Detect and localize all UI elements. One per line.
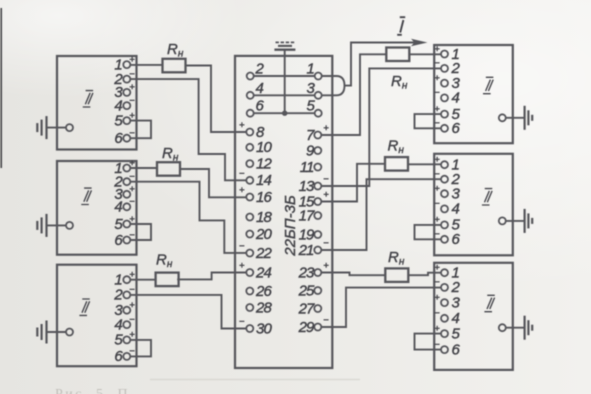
svg-text:+: + xyxy=(239,261,245,272)
pin 3 of right bottom box xyxy=(441,299,448,306)
svg-text:+: + xyxy=(323,190,329,201)
svg-text:5: 5 xyxy=(114,216,123,233)
svg-text:10: 10 xyxy=(256,139,272,156)
wire left-top box pin1 to resistor xyxy=(130,64,162,66)
ground (right middle box) xyxy=(506,220,525,222)
pin 26 of 22БП-3Б xyxy=(246,288,253,295)
wire left-bottom box pin1 to resistor xyxy=(130,279,155,281)
svg-text:6: 6 xyxy=(256,98,265,115)
pin 27 of 22БП-3Б xyxy=(314,305,321,312)
svg-text:23: 23 xyxy=(298,264,315,281)
label II (left middle box) xyxy=(81,188,91,204)
pin 10 of 22БП-3Б xyxy=(246,144,253,151)
wire resistor to right-middle box pin1 xyxy=(408,163,441,165)
svg-text:6: 6 xyxy=(452,120,461,137)
ground (right bottom box) xyxy=(506,327,525,329)
label II (left bottom box) xyxy=(79,299,89,315)
pin 6 of right top box xyxy=(441,125,448,132)
ground (left top box) xyxy=(47,127,67,129)
pin 12 of 22БП-3Б xyxy=(246,160,253,167)
svg-text:5: 5 xyxy=(114,332,123,349)
pin 22 of 22БП-3Б xyxy=(246,250,253,257)
svg-text:+: + xyxy=(434,73,440,84)
wire pin 4 to pin 3 (internal) xyxy=(254,94,315,96)
pin 21 of 22БП-3Б xyxy=(314,247,321,254)
ground terminal circle (right top box) xyxy=(499,114,506,121)
wire resistor to pin 16 (+) xyxy=(180,169,246,197)
jumper wire pins 5-6 (right bottom box) xyxy=(415,334,442,350)
power supply unit 22БП-3Б (outline) xyxy=(235,56,332,368)
svg-text:−: − xyxy=(434,58,440,69)
wire left-middle box pin1 to resistor xyxy=(130,167,157,169)
wire pin 13 (−) to right-top box pin2 xyxy=(321,68,441,186)
current direction arrow I xyxy=(411,39,428,47)
svg-text:+: + xyxy=(129,82,135,93)
svg-text:+: + xyxy=(323,261,329,272)
pin 19 of 22БП-3Б xyxy=(314,231,321,238)
pin 18 of 22БП-3Б xyxy=(246,214,253,221)
svg-text:22: 22 xyxy=(255,245,272,262)
svg-text:−: − xyxy=(434,169,440,180)
left load box II (middle) xyxy=(57,161,137,255)
wire resistor to pin 8 (+) xyxy=(186,66,247,133)
svg-text:17: 17 xyxy=(299,207,315,224)
ground (right top box) xyxy=(506,117,525,119)
ground terminal circle (left top box) xyxy=(66,124,73,131)
pin 14 of 22БП-3Б xyxy=(246,177,253,184)
svg-text:4: 4 xyxy=(256,80,264,97)
ground terminal circle (right middle box) xyxy=(499,217,506,224)
pin 1 of right middle box xyxy=(441,161,448,168)
pin 16 of 22БП-3Б xyxy=(246,194,253,201)
svg-text:+: + xyxy=(434,263,440,274)
scan edge line (left margin) xyxy=(0,8,2,168)
svg-text:+: + xyxy=(239,120,245,131)
pin 1 of right bottom box xyxy=(441,269,448,276)
pin 5 of right bottom box xyxy=(441,330,448,337)
jumper wire pins 5-6 (right top box) xyxy=(415,114,442,128)
right load box II (bottom) xyxy=(434,263,513,370)
svg-text:−: − xyxy=(129,314,135,325)
svg-text:+: + xyxy=(434,44,440,55)
svg-text:1: 1 xyxy=(307,61,315,78)
svg-text:−: − xyxy=(434,199,440,210)
svg-text:12: 12 xyxy=(256,155,272,172)
svg-text:−: − xyxy=(323,315,329,326)
pin 4 of right bottom box xyxy=(441,315,448,322)
pin 17 of 22БП-3Б xyxy=(314,212,321,219)
svg-text:6: 6 xyxy=(114,130,123,147)
pin 28 of 22БП-3Б xyxy=(246,304,253,311)
resistor Rн (left bottom) xyxy=(156,273,179,287)
svg-text:+: + xyxy=(323,123,329,134)
svg-text:13: 13 xyxy=(299,178,315,195)
pin 5 of right middle box xyxy=(441,221,448,228)
wire resistor to pin 24 (+) xyxy=(177,273,246,280)
pin 2 of right top box xyxy=(441,65,448,72)
pin 8 of 22БП-3Б xyxy=(246,129,253,136)
svg-text:6: 6 xyxy=(452,231,461,248)
svg-text:21: 21 xyxy=(298,242,314,259)
pin 2 of 22БП-3Б xyxy=(247,73,254,80)
pin 29 of 22БП-3Б xyxy=(314,324,321,331)
wire left-bottom box pin2 to pin 30 (−) xyxy=(130,295,246,329)
label II (left top box) xyxy=(83,91,93,107)
resistor Rн (right middle) xyxy=(385,157,408,171)
jumper wire pins 5-6 (left bottom box) xyxy=(130,340,151,357)
svg-text:−: − xyxy=(239,168,245,179)
svg-text:4: 4 xyxy=(452,90,460,107)
ground (left middle box) xyxy=(47,224,67,226)
pin 11 of 22БП-3Б xyxy=(314,164,321,171)
svg-text:4: 4 xyxy=(114,199,122,216)
svg-text:−: − xyxy=(239,241,245,252)
label II (right middle box) xyxy=(482,189,492,205)
jumper loop pins 1-3 of 22БП-3Б xyxy=(322,76,345,95)
svg-text:Rн: Rн xyxy=(156,252,173,271)
svg-text:Рис. 5. П: Рис. 5. П xyxy=(55,387,130,394)
svg-text:−: − xyxy=(434,308,440,319)
svg-text:26: 26 xyxy=(255,283,272,300)
pin 4 of right top box xyxy=(441,94,448,101)
pin 4 of 22БП-3Б xyxy=(247,92,254,99)
wire pin 2 to pin 1 (internal) xyxy=(254,75,315,77)
svg-text:Rн: Rн xyxy=(388,249,405,268)
svg-text:18: 18 xyxy=(256,209,272,226)
chassis ground (top of 22БП-3Б) xyxy=(274,49,295,51)
svg-text:24: 24 xyxy=(255,264,271,281)
svg-text:16: 16 xyxy=(256,189,272,206)
wire loop to current arrow xyxy=(345,43,415,86)
pin 23 of 22БП-3Б xyxy=(314,269,321,276)
pin 20 of 22БП-3Б xyxy=(246,231,253,238)
svg-text:6: 6 xyxy=(452,341,461,358)
svg-text:−: − xyxy=(323,174,329,185)
wire left-top box pin2 to pin 14 (−) xyxy=(130,79,246,180)
resistor Rн (left middle) xyxy=(157,162,180,176)
pin 4 of right middle box xyxy=(441,205,448,212)
label II (right bottom box) xyxy=(484,295,494,311)
svg-text:+: + xyxy=(129,54,135,65)
ground (left bottom box) xyxy=(47,331,67,333)
svg-text:−: − xyxy=(434,88,440,99)
left load box II (top) xyxy=(57,56,137,150)
svg-text:−: − xyxy=(239,317,245,328)
label I with overline xyxy=(397,17,405,35)
label II (right top box) xyxy=(483,77,493,93)
svg-text:+: + xyxy=(129,300,135,311)
wire pin 15 (+) to resistor (right middle) xyxy=(321,164,385,202)
svg-text:+: + xyxy=(239,185,245,196)
junction dot at pin 6-5 row xyxy=(282,111,287,116)
svg-text:−: − xyxy=(129,95,135,106)
svg-text:5: 5 xyxy=(452,325,461,342)
right load box II (middle) xyxy=(434,154,513,256)
svg-text:30: 30 xyxy=(256,320,272,337)
jumper wire pins 5-6 (left top box) xyxy=(130,121,151,139)
jumper wire pins 5-6 (right middle box) xyxy=(415,225,442,239)
resistor Rн (left top) xyxy=(163,59,186,73)
svg-text:−: − xyxy=(129,197,135,208)
pin 9 of 22БП-3Б xyxy=(314,147,321,154)
ground terminal circle (right bottom box) xyxy=(499,324,506,331)
jumper wire pins 5-6 (left middle box) xyxy=(130,224,151,240)
svg-text:+: + xyxy=(434,184,440,195)
wire pin 21 (−) to right-middle box pin2 xyxy=(321,179,441,250)
svg-text:25: 25 xyxy=(298,282,315,299)
pin 5 of right top box xyxy=(441,111,448,118)
wire left-middle box pin2 to pin 22 (−) xyxy=(130,182,246,253)
svg-text:14: 14 xyxy=(256,172,271,189)
svg-text:Rн: Rн xyxy=(391,73,408,92)
resistor Rн (right bottom) xyxy=(385,268,408,282)
right load box II (top) xyxy=(434,45,513,143)
pin 5 of 22БП-3Б xyxy=(315,110,322,117)
svg-text:2: 2 xyxy=(255,61,265,78)
left load box II (bottom) xyxy=(57,265,137,367)
wire pin 6 to pin 5 (internal) xyxy=(254,112,315,114)
svg-text:Rн: Rн xyxy=(167,41,184,60)
svg-text:29: 29 xyxy=(298,319,315,336)
pin 1 of 22БП-3Б xyxy=(315,73,322,80)
pin 6 of right middle box xyxy=(441,236,448,243)
svg-text:+: + xyxy=(434,292,440,303)
wire pin 29 (−) to right-bottom box pin2 xyxy=(321,288,441,327)
svg-text:28: 28 xyxy=(255,299,272,316)
svg-text:22БП-3Б: 22БП-3Б xyxy=(282,195,299,257)
ground wire (center vertical) xyxy=(284,50,286,114)
svg-text:19: 19 xyxy=(299,226,315,243)
pin 6 of right bottom box xyxy=(441,346,448,353)
svg-text:+: + xyxy=(434,155,440,166)
pin 7 of 22БП-3Б xyxy=(314,132,321,139)
svg-text:20: 20 xyxy=(255,226,272,243)
wire resistor to right-bottom box pin1 xyxy=(408,273,441,276)
wire resistor to right-top box pin1 xyxy=(410,53,441,55)
pin 3 of 22БП-3Б xyxy=(315,92,322,99)
pin 25 of 22БП-3Б xyxy=(314,287,321,294)
wire pin 7 (+) to resistor (right top) xyxy=(321,54,387,135)
pin 6 of 22БП-3Б xyxy=(247,110,254,117)
svg-text:−: − xyxy=(323,238,329,249)
svg-text:+: + xyxy=(129,184,135,195)
pin 15 of 22БП-3Б xyxy=(314,198,321,205)
faint scan streak (bottom) xyxy=(150,379,360,381)
wire pin 23 (+) to resistor (right bottom) xyxy=(321,273,386,276)
pin 2 of right bottom box xyxy=(441,284,448,291)
svg-text:−: − xyxy=(434,277,440,288)
ground terminal circle (left middle box) xyxy=(66,222,73,229)
resistor Rн (right top) xyxy=(386,48,409,62)
svg-text:Rн: Rн xyxy=(388,138,405,157)
pin 3 of right top box xyxy=(441,80,448,87)
svg-text:11: 11 xyxy=(300,159,314,176)
pin 1 of right top box xyxy=(441,51,448,58)
svg-text:Rн: Rн xyxy=(162,145,179,164)
pin 3 of right middle box xyxy=(441,190,448,197)
svg-text:5: 5 xyxy=(114,112,123,129)
ground terminal circle (left bottom box) xyxy=(66,329,73,336)
svg-text:4: 4 xyxy=(452,201,460,218)
pin 13 of 22БП-3Б xyxy=(314,183,321,190)
svg-text:6: 6 xyxy=(114,232,123,249)
pin 24 of 22БП-3Б xyxy=(246,269,253,276)
pin 30 of 22БП-3Б xyxy=(246,325,253,332)
svg-text:27: 27 xyxy=(298,300,315,317)
pin 2 of right middle box xyxy=(441,176,448,183)
svg-text:6: 6 xyxy=(114,348,123,365)
svg-text:3: 3 xyxy=(452,294,461,311)
